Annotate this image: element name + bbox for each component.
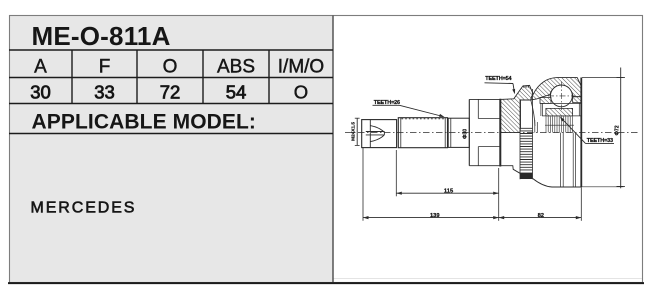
spline bore ticks	[546, 117, 572, 133]
cage flank right (hatched)	[573, 97, 582, 103]
dimension line 82	[499, 217, 582, 219]
sheet bottom border	[8, 282, 644, 284]
svg-text:TEETH=33: TEETH=33	[587, 138, 613, 144]
extension line 139 left	[362, 148, 364, 221]
inner race top line	[540, 102, 581, 104]
phi72 dimension line	[620, 68, 622, 189]
extension line 115 left	[395, 150, 397, 196]
inner race bottom line	[542, 115, 581, 117]
svg-text:115: 115	[444, 189, 454, 195]
bell lower silhouette	[500, 166, 520, 174]
thread chamfer cone	[370, 126, 384, 142]
boot groove lines	[560, 133, 562, 187]
drawing sheet inner bottom margin	[333, 278, 642, 280]
M24X1.5 thread dimension line	[356, 118, 358, 146]
outer race dome section (hatched)	[531, 78, 582, 100]
neck lines	[478, 118, 500, 120]
ball	[551, 85, 573, 107]
panel/drawing divider	[332, 16, 334, 283]
spline teeth ticks	[402, 118, 445, 120]
svg-text:MERCEDES: MERCEDES	[31, 200, 137, 217]
svg-text:139: 139	[430, 213, 440, 219]
tone ring dark base	[520, 173, 533, 179]
cage flank left (hatched)	[540, 98, 551, 104]
svg-text:O: O	[294, 81, 308, 102]
teeth=26 leader	[373, 104, 400, 106]
center hole notch	[366, 132, 385, 135]
svg-text:A: A	[34, 56, 47, 77]
cavity-side verticals	[534, 120, 536, 133]
svg-text:Φ30: Φ30	[462, 129, 468, 139]
cavity curve	[531, 100, 535, 126]
extension line bottom right	[582, 186, 624, 188]
svg-text:Φ72: Φ72	[615, 125, 621, 135]
svg-text:APPLICABLE MODEL:: APPLICABLE MODEL:	[32, 111, 257, 134]
teeth=33 leader	[586, 142, 615, 144]
dimension line 139	[363, 217, 499, 219]
svg-text:33: 33	[94, 81, 115, 102]
table line under title row	[9, 49, 333, 51]
tone ring teeth stripes	[520, 128, 533, 170]
table line under APPLICABLE MODEL row	[9, 133, 333, 135]
svg-text:30: 30	[30, 81, 51, 102]
svg-text:I/M/O: I/M/O	[278, 56, 324, 77]
teeth=54 leader	[485, 82, 514, 85]
svg-text:TEETH=54: TEETH=54	[485, 76, 512, 82]
column line O|ABS	[202, 50, 204, 104]
inner race section (hatched)	[546, 108, 573, 116]
bell wall and tone-ring hump section (hatched)	[500, 85, 533, 132]
data panel background	[9, 16, 333, 283]
step cylinder	[448, 118, 469, 147]
svg-text:F: F	[99, 56, 111, 77]
svg-text:M24X1.5: M24X1.5	[351, 122, 357, 141]
spline shaft body	[398, 118, 447, 148]
boot flange cylinder	[469, 98, 500, 100]
dimension line 115	[396, 192, 498, 194]
bell back face	[499, 99, 501, 167]
svg-text:O: O	[163, 56, 178, 77]
extension line top right	[582, 77, 624, 79]
svg-text:ME-O-811A: ME-O-811A	[32, 21, 171, 51]
column line A|F	[71, 50, 73, 104]
column line F|O	[136, 50, 138, 104]
extension line 82 right	[580, 187, 582, 221]
extension line 115/139/82 middle	[498, 168, 500, 221]
centerline	[345, 132, 638, 134]
bell right face	[580, 78, 582, 188]
table line under header row	[9, 77, 333, 79]
svg-text:TEETH=26: TEETH=26	[374, 100, 400, 106]
tone ring castellated top	[523, 85, 529, 87]
spline bore step line	[545, 124, 574, 126]
svg-text:ABS: ABS	[217, 56, 255, 77]
table line under value row	[9, 103, 333, 105]
svg-text:54: 54	[226, 81, 247, 102]
flange face	[468, 99, 470, 165]
svg-text:82: 82	[538, 213, 544, 219]
tone ring outside band	[519, 99, 521, 179]
column line ABS|I/M/O	[268, 50, 270, 104]
thread stub body	[362, 120, 397, 148]
svg-text:72: 72	[160, 81, 181, 102]
